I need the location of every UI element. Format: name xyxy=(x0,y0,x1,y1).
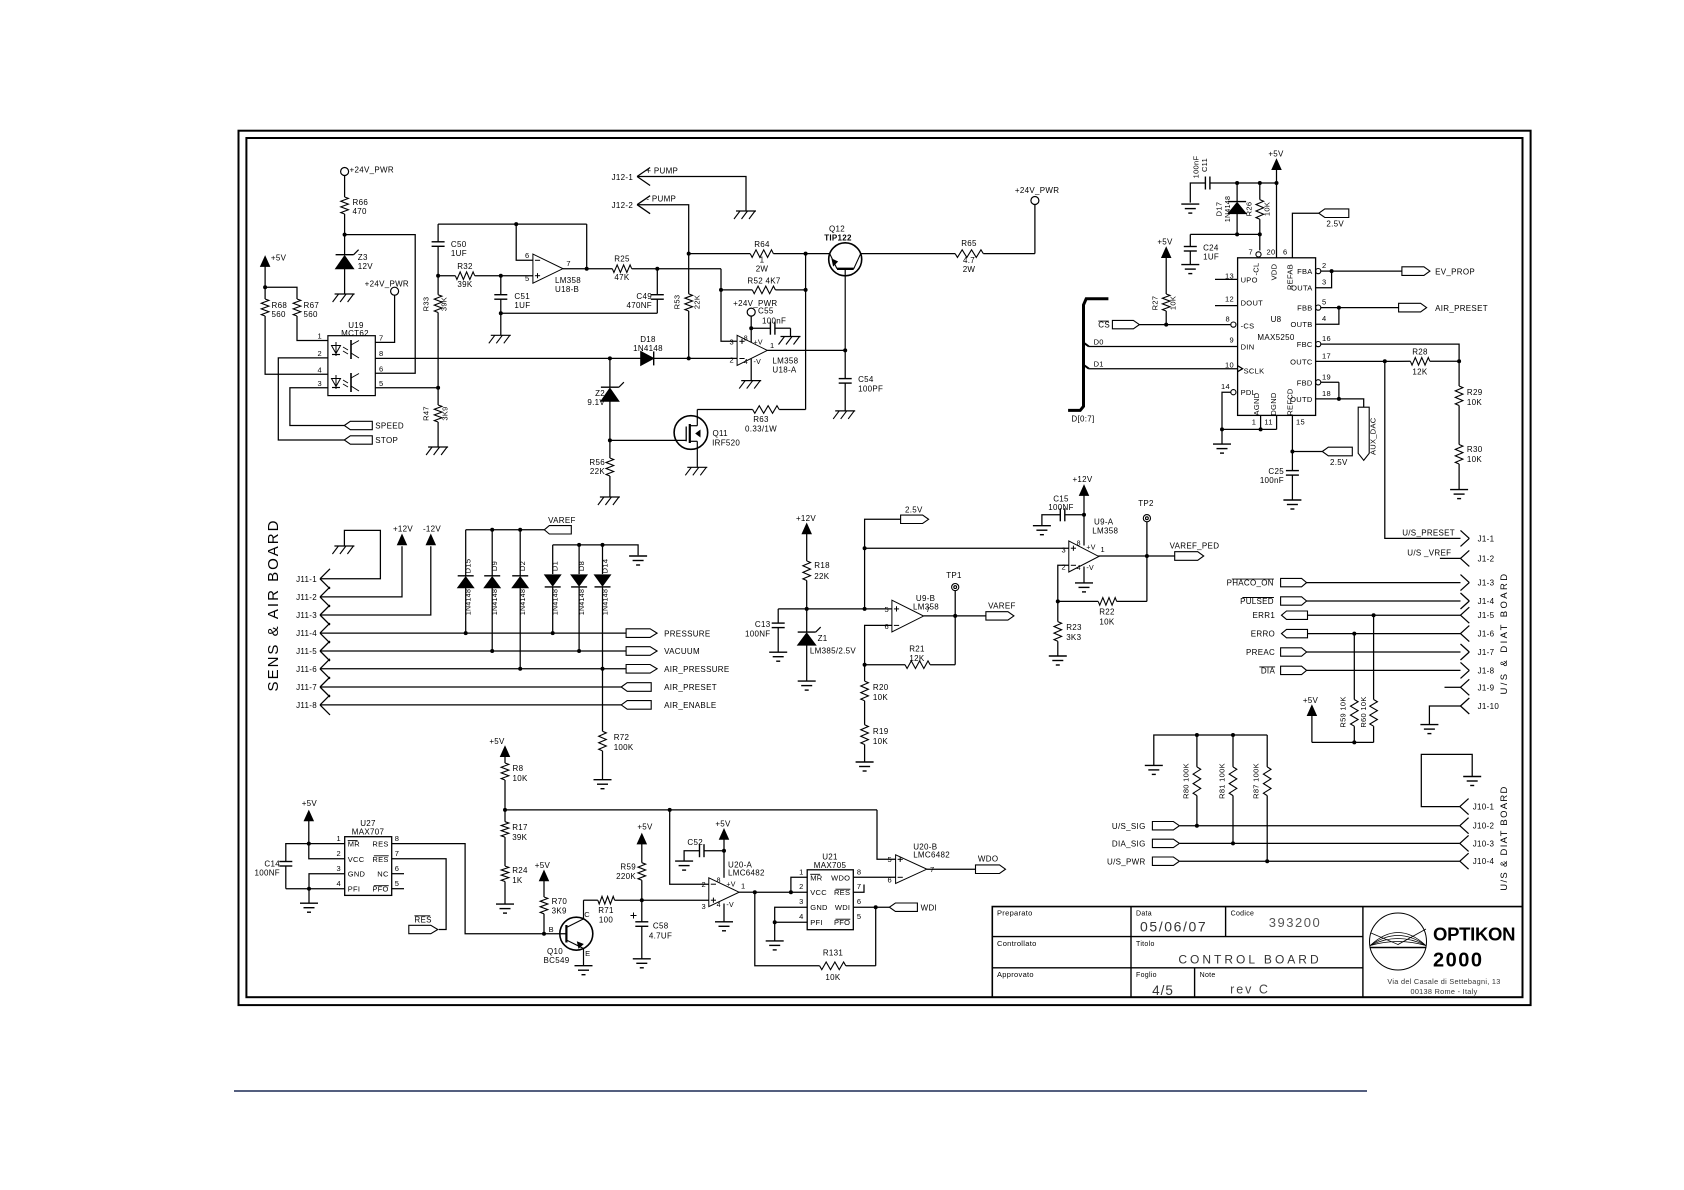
wire J10-1 to ground xyxy=(1421,754,1472,806)
svg-text:R29: R29 xyxy=(1467,388,1483,397)
svg-text:2: 2 xyxy=(1062,562,1066,571)
svg-text:DIA: DIA xyxy=(1261,666,1276,675)
node Z2 top/D18 xyxy=(608,356,612,360)
svg-text:8: 8 xyxy=(1226,315,1230,324)
op-amp U20-B LMC6482 xyxy=(896,855,927,884)
svg-text:D9: D9 xyxy=(490,561,499,571)
wire J11-8 AIR_ENABLE xyxy=(320,704,621,706)
ground (J10-1) xyxy=(1463,776,1481,778)
svg-text:RES: RES xyxy=(372,840,388,849)
svg-text:U18-B: U18-B xyxy=(555,285,579,294)
svg-text:OUTC: OUTC xyxy=(1290,357,1313,366)
svg-text:+V: +V xyxy=(1086,544,1095,551)
svg-text:5: 5 xyxy=(1322,298,1326,307)
svg-text:Via del Casale di Settebagni,: Via del Casale di Settebagni, 13 xyxy=(1387,977,1500,986)
flag AIR_PRESET (J11) xyxy=(621,683,651,692)
svg-text:Q12: Q12 xyxy=(829,225,845,234)
connector J11-5 chevron xyxy=(320,641,330,651)
node D1/J11-4 xyxy=(551,631,555,635)
svg-text:39K: 39K xyxy=(440,297,449,311)
node CS/R27 xyxy=(1164,323,1168,327)
wire U20-A out to U21 VCC xyxy=(739,891,755,893)
wire U21 GND/PFI to ground xyxy=(775,907,808,941)
svg-text:R56: R56 xyxy=(589,458,605,467)
svg-text:10K: 10K xyxy=(1099,618,1114,627)
svg-text:CS: CS xyxy=(1098,321,1110,330)
svg-text:6: 6 xyxy=(857,897,861,906)
svg-text:D8: D8 xyxy=(577,561,586,571)
node R26 top xyxy=(1258,181,1262,185)
svg-text:100NF: 100NF xyxy=(745,630,771,639)
svg-text:PFI: PFI xyxy=(810,918,823,927)
connector J10-1 chevron xyxy=(1460,799,1469,807)
wire to 2.5V flag xyxy=(1292,451,1322,453)
svg-text:18: 18 xyxy=(1322,389,1331,398)
svg-text:22K: 22K xyxy=(693,295,702,309)
svg-text:MCT62: MCT62 xyxy=(341,329,369,338)
flag AIR_PRESSURE xyxy=(626,665,657,674)
node R25/C49 xyxy=(655,267,659,271)
svg-text:1: 1 xyxy=(337,834,341,843)
svg-text:J1-5: J1-5 xyxy=(1478,611,1495,620)
node R64 left xyxy=(687,252,691,256)
resistor R8 10K xyxy=(501,763,509,780)
svg-text:1UF: 1UF xyxy=(1203,253,1219,262)
svg-text:100nF: 100nF xyxy=(762,317,786,326)
svg-text:J11-3: J11-3 xyxy=(296,611,317,620)
wire U18-B out to R25 xyxy=(563,268,612,270)
svg-text:J1-6: J1-6 xyxy=(1478,630,1495,639)
ground (C24) xyxy=(1181,264,1199,266)
svg-text:MAX705: MAX705 xyxy=(814,861,847,870)
power +24V_PWR terminal (R65) xyxy=(1031,197,1039,205)
svg-text:4: 4 xyxy=(318,366,322,375)
svg-text:1: 1 xyxy=(799,867,803,876)
wire U9-A -V ground xyxy=(1083,567,1085,583)
svg-text:393200: 393200 xyxy=(1269,915,1321,930)
node R53/D18 wire xyxy=(687,356,691,360)
svg-text:UPO: UPO xyxy=(1241,275,1258,284)
svg-text:15: 15 xyxy=(1296,417,1305,426)
diode D9 1N4148 xyxy=(491,530,493,576)
svg-text:R28: R28 xyxy=(1412,348,1428,357)
node R70/base xyxy=(542,932,546,936)
svg-text:10K: 10K xyxy=(513,774,528,783)
U8 DGND pin11 wire xyxy=(1276,415,1278,429)
wire J11-2 to +12V xyxy=(320,546,402,597)
lower rail -CL xyxy=(1190,233,1260,235)
wire pin7 xyxy=(375,295,394,342)
wire J11-6 AIR_PRESSURE xyxy=(320,668,626,670)
svg-text:Foglio: Foglio xyxy=(1136,972,1157,979)
wire riser to 2.5V flag xyxy=(865,519,901,609)
wire J11-3 to -12V xyxy=(320,546,431,615)
svg-text:17: 17 xyxy=(1322,351,1331,360)
connector J1-10 chevron xyxy=(1461,698,1470,706)
svg-text:10K: 10K xyxy=(873,737,888,746)
capacitor C50 1UF xyxy=(437,224,439,242)
svg-text:FBA: FBA xyxy=(1297,267,1313,276)
U8 pin12 DOUT stub xyxy=(1215,305,1238,307)
ground (C52) xyxy=(675,860,693,862)
svg-text:8: 8 xyxy=(857,867,861,876)
svg-text:U/S & DIAT BOARD: U/S & DIAT BOARD xyxy=(1499,571,1510,694)
svg-text:C54: C54 xyxy=(858,375,874,384)
wire J1-8 xyxy=(1306,669,1460,671)
wire J11-5 VACUUM xyxy=(320,650,626,652)
svg-text:R53: R53 xyxy=(673,295,682,310)
svg-text:R59: R59 xyxy=(620,863,636,872)
node C55 xyxy=(749,326,753,330)
wire FBA/OUTA tie xyxy=(1321,270,1332,272)
wire R33 to R47 xyxy=(437,313,439,406)
node R18/Z1/C13 rail xyxy=(805,607,809,611)
svg-text:1N4148: 1N4148 xyxy=(1225,196,1232,222)
svg-text:VCC: VCC xyxy=(810,888,827,897)
flag 2.5V (REFCD) xyxy=(1322,447,1352,456)
U8 pin bubbles xyxy=(1231,322,1236,327)
svg-text:BC549: BC549 xyxy=(544,956,570,965)
resistor R25 47K xyxy=(612,265,631,273)
wire FBC long feedback xyxy=(1321,344,1459,361)
connector J11-6 chevron xyxy=(320,659,330,669)
svg-text:-V: -V xyxy=(1086,565,1094,572)
node R80/J10-2 xyxy=(1195,824,1199,828)
svg-text:5: 5 xyxy=(379,379,383,388)
svg-text:R59 10K: R59 10K xyxy=(1339,696,1348,727)
svg-text:J11-2: J11-2 xyxy=(296,593,317,602)
svg-text:3: 3 xyxy=(702,902,706,911)
wire R53 bottom xyxy=(688,311,690,358)
svg-text:6: 6 xyxy=(1283,248,1287,257)
svg-text:C13: C13 xyxy=(755,620,771,629)
svg-text:11: 11 xyxy=(1264,417,1272,426)
svg-text:R22: R22 xyxy=(1099,608,1115,617)
ground (C11) xyxy=(1181,203,1199,205)
svg-text:4: 4 xyxy=(717,902,721,909)
wire R29-R30 xyxy=(1458,406,1460,445)
svg-text:1UF: 1UF xyxy=(514,301,530,310)
svg-text:DOUT: DOUT xyxy=(1241,299,1264,308)
svg-text:R67: R67 xyxy=(304,301,320,310)
svg-text:560: 560 xyxy=(304,310,318,319)
svg-text:4: 4 xyxy=(799,912,803,921)
svg-text:+12V: +12V xyxy=(1072,475,1092,484)
ground (R47) xyxy=(428,446,448,448)
svg-text:-CL: -CL xyxy=(1252,263,1261,276)
capacitor C54 100PF xyxy=(844,350,846,378)
resistor R71 100 xyxy=(598,896,615,904)
svg-text:J11-8: J11-8 xyxy=(296,701,317,710)
svg-text:2: 2 xyxy=(702,880,706,889)
op-amp U18-B LM358 xyxy=(533,254,563,283)
ground (C13) xyxy=(769,651,787,653)
ground (C54) xyxy=(835,410,855,412)
svg-text:47K: 47K xyxy=(614,273,629,282)
node R52 left xyxy=(719,288,723,292)
svg-text:- PUMP: - PUMP xyxy=(646,195,676,204)
logo OPTIKON circle xyxy=(1370,913,1427,970)
flag WDO xyxy=(976,865,1006,874)
svg-text:1N4148: 1N4148 xyxy=(633,344,663,353)
svg-text:LM358: LM358 xyxy=(772,357,798,366)
wire C11 left to ground xyxy=(1190,183,1205,203)
ground (R30) xyxy=(1450,489,1468,491)
node D8 top rail xyxy=(577,543,581,547)
svg-text:Codice: Codice xyxy=(1231,911,1255,918)
connector J10-4 chevron xyxy=(1460,853,1469,861)
node R59/J1-6 xyxy=(1352,632,1356,636)
svg-text:2000: 2000 xyxy=(1433,950,1484,972)
svg-text:C51: C51 xyxy=(514,292,530,301)
svg-text:WDI: WDI xyxy=(921,903,937,912)
wire MR pin1 xyxy=(791,877,807,892)
ground rail (D1/D8/D14) xyxy=(553,545,638,555)
node D15/J11-4 xyxy=(464,631,468,635)
svg-text:Data: Data xyxy=(1136,911,1152,918)
svg-text:4: 4 xyxy=(337,879,341,888)
svg-text:1N4148: 1N4148 xyxy=(579,589,586,615)
ground (Z1) xyxy=(798,680,816,682)
power +5V arrow (R27) xyxy=(1162,248,1171,258)
svg-text:D0: D0 xyxy=(1094,337,1104,346)
connector J1-2 chevron xyxy=(1461,550,1470,558)
svg-text:ERR1: ERR1 xyxy=(1253,611,1276,620)
svg-text:1: 1 xyxy=(1101,545,1105,554)
connector J10-2 chevron xyxy=(1460,818,1469,826)
svg-text:100: 100 xyxy=(599,916,613,925)
node +5V/R68/R67 xyxy=(263,285,267,289)
svg-text:IRF520: IRF520 xyxy=(712,439,740,448)
capacitor C25 100nF xyxy=(1286,470,1299,472)
svg-text:7: 7 xyxy=(566,259,570,268)
resistor R33 39K xyxy=(437,276,439,295)
wire U20-B out xyxy=(927,868,976,870)
resistor R24 1K xyxy=(501,866,509,881)
svg-text:ERRO: ERRO xyxy=(1251,630,1275,639)
capacitor C13 100NF xyxy=(777,609,779,623)
svg-text:R21: R21 xyxy=(909,645,925,654)
diode D1 1N4148 (clamp low) xyxy=(552,545,554,574)
svg-text:EV_PROP: EV_PROP xyxy=(1435,267,1475,276)
svg-text:3: 3 xyxy=(1062,545,1066,554)
svg-text:7: 7 xyxy=(857,882,861,891)
wire feedback right down to output xyxy=(586,224,588,269)
wire to U9-B pin5 xyxy=(865,608,892,610)
power +12V arrow (U9-A) xyxy=(1080,485,1089,495)
IC U27 MAX707 xyxy=(345,837,392,896)
resistor R59 10K (pullup) xyxy=(1353,634,1355,700)
connector J10-3 chevron xyxy=(1460,835,1469,843)
optocoupler U19 MCT62 xyxy=(328,336,375,396)
svg-text:3: 3 xyxy=(1322,278,1326,287)
wire to AIR_PRESET xyxy=(1339,307,1399,309)
resistor R67 560 xyxy=(293,299,301,316)
svg-text:4/5: 4/5 xyxy=(1152,983,1174,998)
svg-text:RES: RES xyxy=(414,915,431,924)
svg-text:5: 5 xyxy=(525,274,529,283)
svg-text:05/06/07: 05/06/07 xyxy=(1140,919,1207,935)
svg-text:D1: D1 xyxy=(1094,360,1104,369)
wire R52 riser to base wire xyxy=(805,254,807,290)
svg-text:Q11: Q11 xyxy=(713,429,729,438)
ground (C51 rail) xyxy=(491,334,511,336)
wire +5V pullup line to U20 xyxy=(505,809,877,811)
svg-text:560: 560 xyxy=(272,310,286,319)
svg-text:Z3: Z3 xyxy=(358,253,368,262)
svg-text:C50: C50 xyxy=(451,240,467,249)
wire to C55 node xyxy=(750,316,752,342)
resistor R53 22K xyxy=(685,294,693,311)
node R87/J10-4 xyxy=(1265,859,1269,863)
capacitor C14 100NF xyxy=(279,861,292,863)
node WDI/R131 xyxy=(874,905,878,909)
resistor R66 470 xyxy=(341,197,349,214)
ground (Q10) xyxy=(575,965,593,967)
svg-text:10K: 10K xyxy=(1467,398,1482,407)
svg-text:+5V: +5V xyxy=(302,799,318,808)
svg-text:J1-4: J1-4 xyxy=(1478,597,1495,606)
svg-text:AIR_PRESSURE: AIR_PRESSURE xyxy=(664,665,729,674)
node AGND xyxy=(1220,427,1224,431)
svg-text:+5V: +5V xyxy=(637,823,653,832)
wire U19 pin2 to STOP xyxy=(278,358,344,440)
svg-text:3: 3 xyxy=(799,897,803,906)
node feedback/pin6 xyxy=(514,222,518,226)
svg-text:GND: GND xyxy=(348,870,366,879)
svg-text:DGND: DGND xyxy=(1269,392,1278,416)
svg-text:VDD: VDD xyxy=(1270,263,1279,280)
capacitor C55 100nF xyxy=(751,327,770,329)
node D8/J11-5 xyxy=(577,649,581,653)
wire J11-7 AIR_PRESET xyxy=(320,686,621,688)
node out/C54/Q12 xyxy=(843,348,847,352)
svg-text:19: 19 xyxy=(1322,372,1331,381)
node pin2/R22/R23 xyxy=(1056,599,1060,603)
wire to EV_PROP xyxy=(1332,270,1402,272)
svg-text:R63: R63 xyxy=(753,415,769,424)
svg-text:39K: 39K xyxy=(457,280,472,289)
wire to U9-A pin3 xyxy=(865,547,1069,549)
wire R20-R19 xyxy=(864,701,866,725)
ground (rail left) xyxy=(1145,764,1163,766)
wire R131 loop xyxy=(755,892,820,966)
svg-text:D2: D2 xyxy=(518,561,527,571)
svg-text:AIR_ENABLE: AIR_ENABLE xyxy=(664,701,716,710)
connector J12-1 chevron xyxy=(637,168,650,177)
svg-text:J1-2: J1-2 xyxy=(1478,554,1495,563)
flag EV_PROP xyxy=(1402,267,1430,276)
svg-text:C49: C49 xyxy=(636,292,652,301)
svg-text:2.5V: 2.5V xyxy=(1326,219,1344,228)
resistor R19 10K xyxy=(861,725,869,745)
svg-text:2: 2 xyxy=(799,882,803,891)
wire J10-3 xyxy=(1180,842,1460,844)
wire Z2 to gate node xyxy=(609,401,611,440)
svg-text:R66: R66 xyxy=(353,198,369,207)
wire -CL pin xyxy=(1259,234,1261,250)
resistor R81 100K xyxy=(1232,735,1234,767)
svg-text:J11-6: J11-6 xyxy=(296,665,317,674)
transistor Q12 TIP122 xyxy=(829,243,862,276)
svg-text:SCLK: SCLK xyxy=(1244,367,1265,376)
svg-text:6: 6 xyxy=(379,365,383,374)
svg-text:R26: R26 xyxy=(1245,202,1254,217)
resistor R22 10K xyxy=(1058,600,1098,602)
svg-text:1N4148: 1N4148 xyxy=(520,589,527,615)
resistor R28 12K xyxy=(1410,358,1430,366)
connector J1-1 chevron xyxy=(1461,530,1470,538)
resistor R70 3K9 xyxy=(540,897,548,914)
svg-text:+5V: +5V xyxy=(1268,149,1284,158)
svg-text:10K: 10K xyxy=(1467,455,1482,464)
flag 2.5V (REFAB) xyxy=(1319,209,1349,218)
svg-text:R80 100K: R80 100K xyxy=(1182,763,1191,799)
svg-text:220K: 220K xyxy=(616,872,636,881)
svg-text:R33: R33 xyxy=(422,297,431,312)
resistor R30 10K xyxy=(1455,445,1463,465)
connector J1-9 chevron xyxy=(1461,679,1470,687)
svg-text:2: 2 xyxy=(730,355,734,364)
ground (J11-1) xyxy=(334,545,354,547)
svg-text:6: 6 xyxy=(395,864,399,873)
svg-text:R65: R65 xyxy=(961,239,977,248)
testpoint TP2 xyxy=(1146,522,1148,556)
node out/TP2/R22 xyxy=(1145,554,1149,558)
svg-text:Z2: Z2 xyxy=(595,389,605,398)
wire pin6 riser xyxy=(516,224,533,260)
svg-text:1: 1 xyxy=(741,882,745,891)
node R32/C50/R33 xyxy=(436,274,440,278)
wire R25 right xyxy=(632,268,721,270)
svg-text:+12V: +12V xyxy=(796,514,816,523)
svg-text:VAREF: VAREF xyxy=(548,516,576,525)
wire J1-9 stub xyxy=(1445,686,1461,688)
U8 REFCD pin15 wire xyxy=(1291,415,1293,470)
svg-text:+V: +V xyxy=(754,340,763,347)
svg-text:100PF: 100PF xyxy=(858,385,883,394)
border inner frame xyxy=(246,138,1522,997)
resistor R20 10K xyxy=(864,665,866,681)
svg-text:VACUUM: VACUUM xyxy=(664,647,700,656)
svg-text:1N4148: 1N4148 xyxy=(602,589,609,615)
svg-text:VCC: VCC xyxy=(348,855,365,864)
node D14 top rail xyxy=(601,543,605,547)
wire C13 rail xyxy=(778,608,864,610)
svg-text:R27: R27 xyxy=(1151,296,1160,311)
svg-text:12V: 12V xyxy=(358,262,373,271)
svg-text:100K: 100K xyxy=(614,743,634,752)
diode D8 1N4148 xyxy=(578,545,580,574)
svg-text:FBB: FBB xyxy=(1297,304,1313,313)
node pin5/R33/R47 xyxy=(436,386,440,390)
resistor R60 10K (pullup) xyxy=(1373,615,1375,699)
svg-text:+24V_PWR: +24V_PWR xyxy=(365,280,409,289)
svg-text:J1-3: J1-3 xyxy=(1478,579,1495,588)
svg-text:4.7UF: 4.7UF xyxy=(649,932,672,941)
power +5V arrow (R68/R67) xyxy=(261,256,270,266)
svg-text:R71: R71 xyxy=(598,906,614,915)
node junction R66/Z3/U19-6 xyxy=(343,233,347,237)
ground (J12-1) xyxy=(736,210,756,212)
flag VAREF_PED xyxy=(1175,552,1204,561)
svg-text:4: 4 xyxy=(1322,314,1326,323)
resistor R65 4.7 2W xyxy=(861,253,955,255)
node C14/PFI/gnd riser xyxy=(307,887,311,891)
ground (U21) xyxy=(766,940,784,942)
wire U21 WDO pin8 to U20-B pin6 xyxy=(853,876,895,878)
svg-text:PHACO_ON: PHACO_ON xyxy=(1227,579,1274,588)
